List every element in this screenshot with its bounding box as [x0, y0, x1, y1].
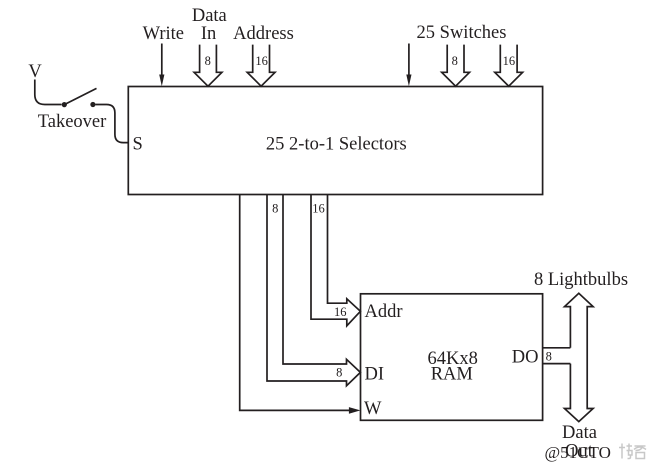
svg-text:8: 8	[336, 366, 342, 380]
bus DO out of RAM (bottom line)	[543, 363, 571, 365]
svg-text:DO: DO	[512, 348, 539, 368]
svg-text:25 2-to-1 Selectors: 25 2-to-1 Selectors	[266, 135, 407, 155]
svg-text:8: 8	[205, 54, 211, 68]
svg-text:8: 8	[546, 349, 552, 363]
svg-text:16: 16	[312, 201, 325, 215]
svg-text:V: V	[28, 62, 42, 82]
svg-text:RAM: RAM	[431, 365, 473, 385]
svg-text:Takeover: Takeover	[38, 112, 107, 132]
bus 16 from selector to RAM Addr	[311, 195, 360, 326]
svg-text:16: 16	[334, 305, 347, 319]
bus arrow Address (16)	[247, 45, 275, 87]
svg-text:Data: Data	[192, 6, 227, 26]
svg-text:W: W	[364, 399, 382, 419]
svg-text:16: 16	[503, 54, 516, 68]
svg-text:Write: Write	[143, 24, 184, 44]
svg-text:Data: Data	[562, 423, 597, 443]
double arrow lightbulbs / data out	[565, 293, 594, 421]
selector box U1	[128, 87, 542, 195]
switch Takeover: left contact dot	[62, 102, 67, 107]
switch Takeover: blade	[64, 88, 96, 104]
svg-text:8: 8	[272, 201, 278, 215]
wire switches arrow	[406, 44, 411, 87]
RAM U2	[361, 294, 543, 421]
svg-text:Out: Out	[565, 442, 594, 462]
watermark glyph ke	[634, 446, 646, 459]
bus 8 from selector to RAM DI	[267, 195, 360, 386]
svg-text:8: 8	[452, 54, 458, 68]
svg-text:Addr: Addr	[365, 302, 403, 322]
svg-text:In: In	[201, 24, 216, 44]
bus DO out of RAM (top line)	[543, 347, 571, 349]
svg-text:DI: DI	[365, 365, 385, 385]
wire switch to S input	[96, 105, 129, 143]
switch Takeover: right contact dot	[90, 102, 95, 107]
svg-text:16: 16	[255, 54, 268, 68]
svg-text:8 Lightbulbs: 8 Lightbulbs	[534, 270, 628, 290]
bus arrow switches 8	[442, 45, 470, 87]
wire Write arrow	[159, 44, 164, 87]
svg-text:S: S	[133, 135, 143, 155]
wire V to switch	[35, 80, 62, 105]
svg-text:25 Switches: 25 Switches	[417, 23, 507, 43]
bus arrow switches 16	[495, 45, 523, 87]
watermark glyph bo	[619, 444, 632, 459]
wire W from selector to RAM	[240, 195, 361, 414]
bus arrow Data In (8)	[194, 45, 222, 87]
svg-text:Address: Address	[233, 24, 294, 44]
